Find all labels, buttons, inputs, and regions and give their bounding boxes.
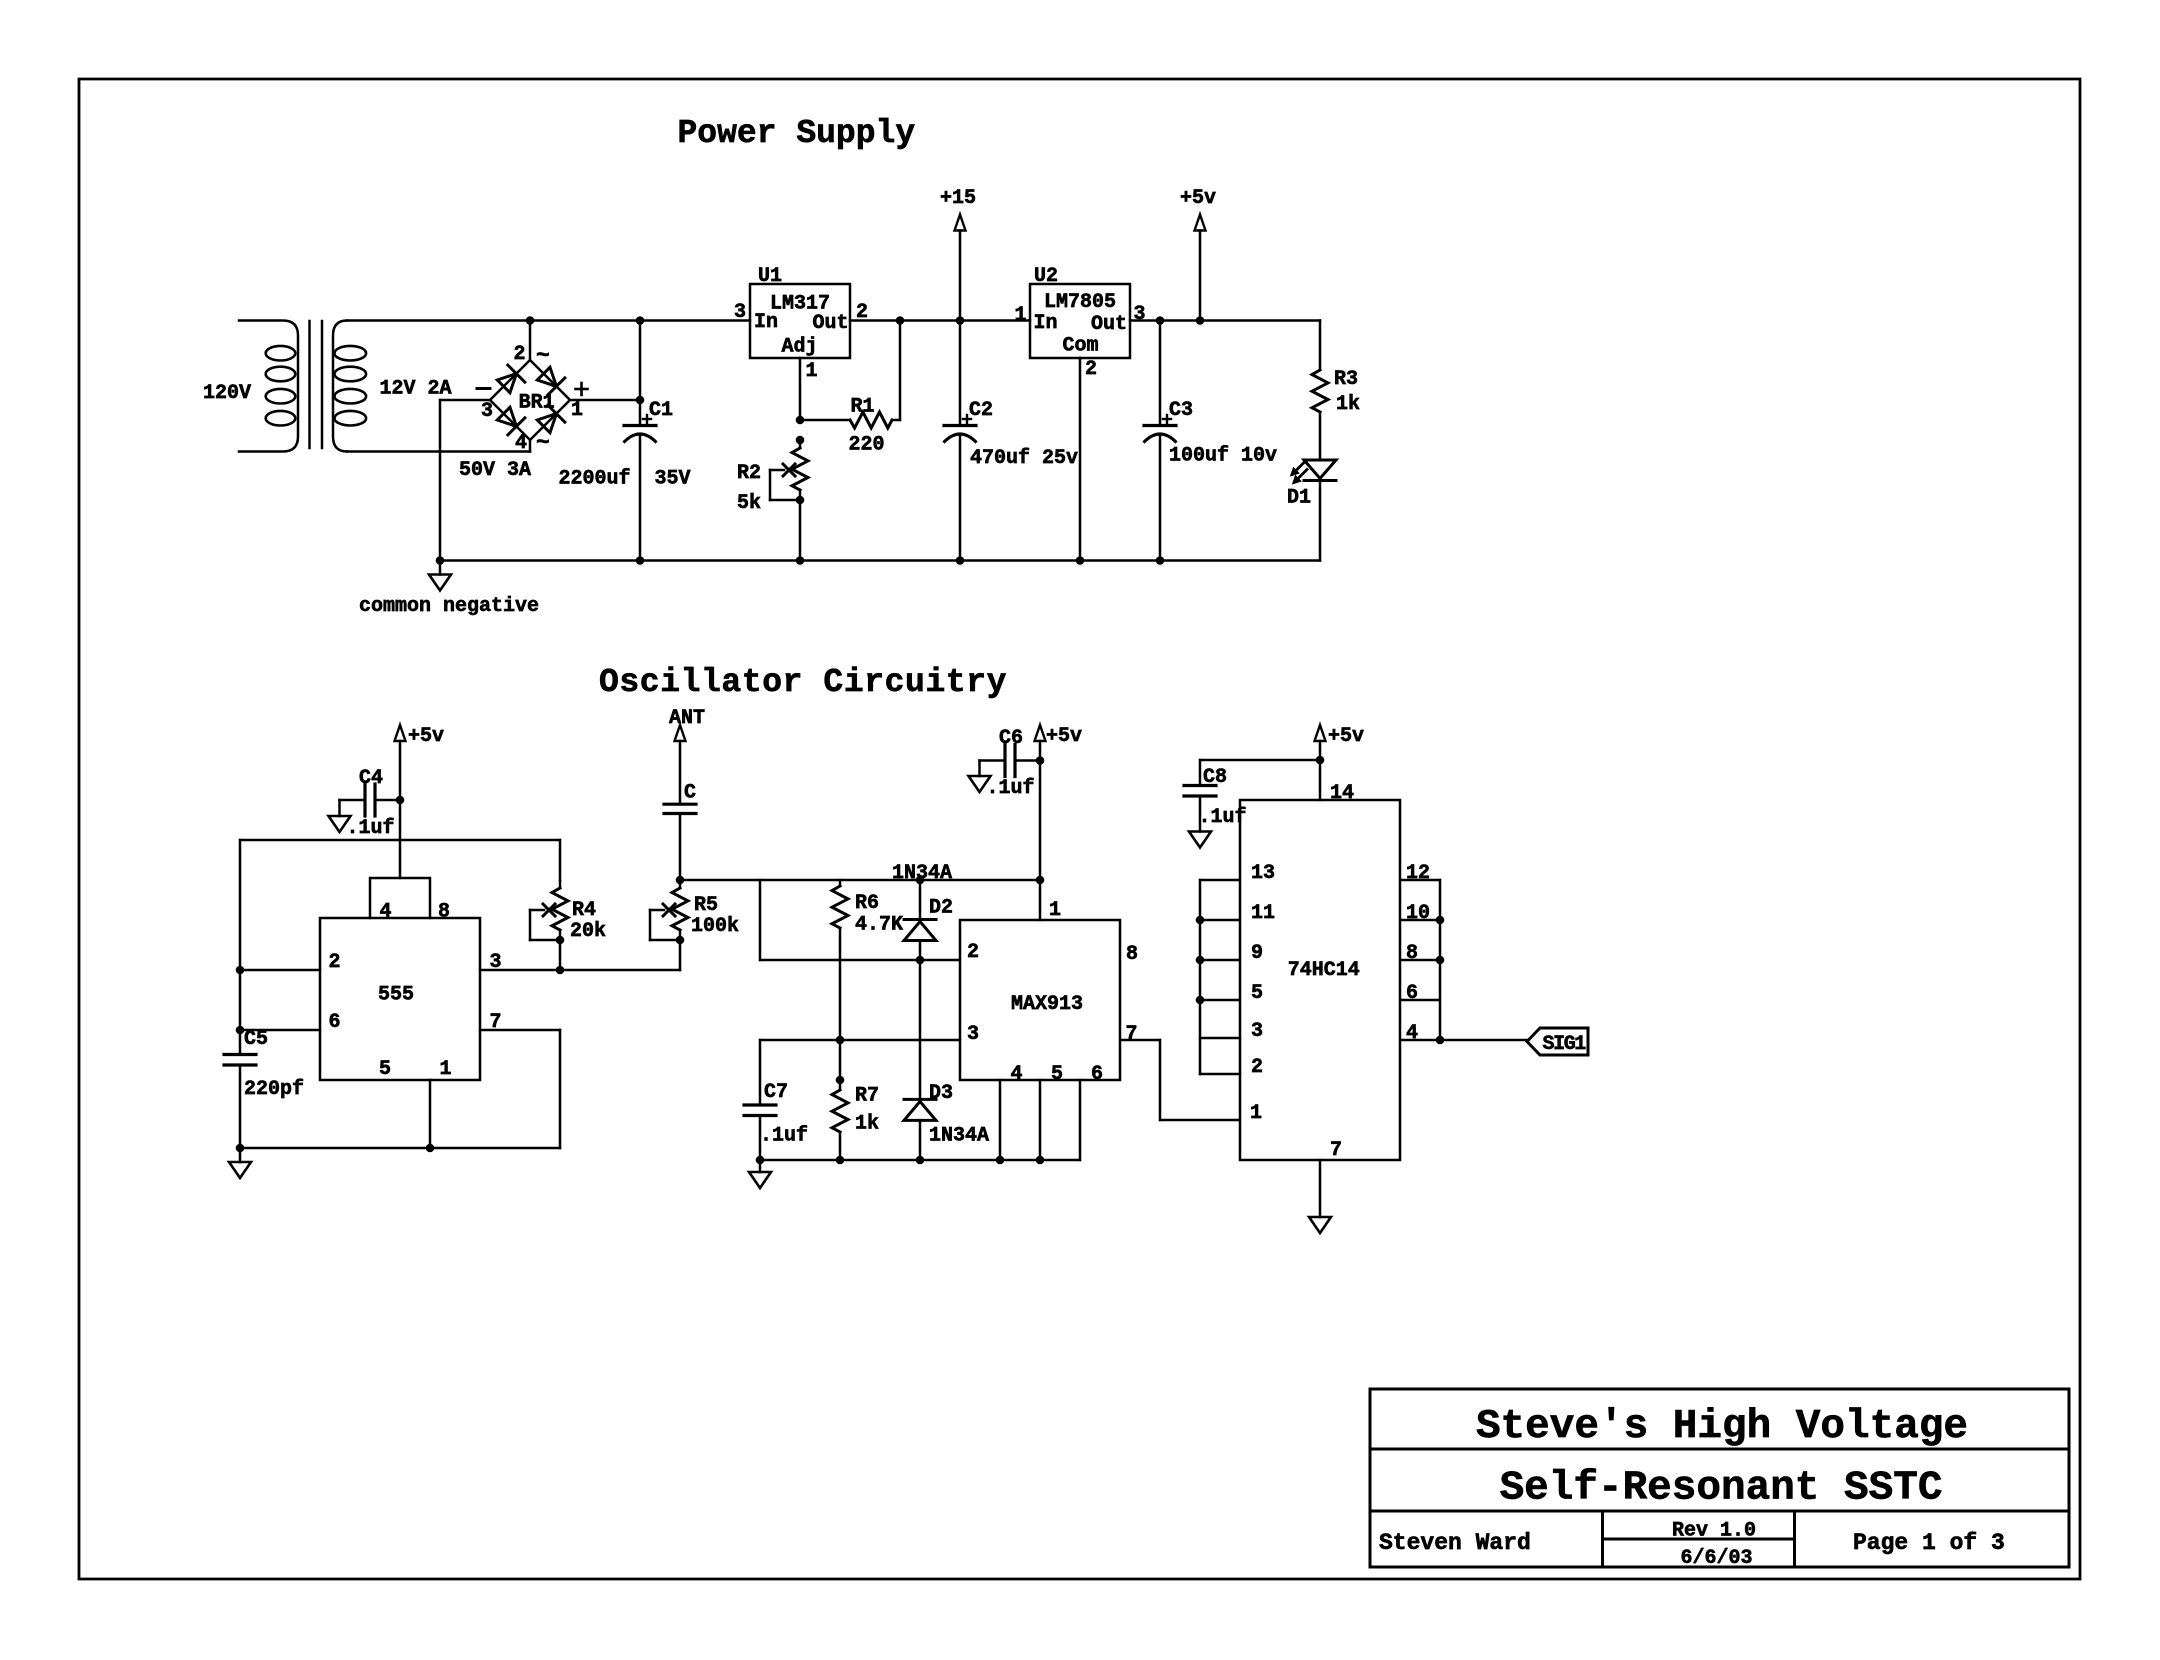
svg-text:Oscillator Circuitry: Oscillator Circuitry (599, 664, 1007, 701)
svg-text:6: 6 (1091, 1063, 1103, 1086)
svg-text:10: 10 (1406, 902, 1430, 925)
svg-text:C5: C5 (244, 1028, 268, 1051)
svg-text:555: 555 (378, 984, 414, 1007)
svg-text:Self-Resonant SSTC: Self-Resonant SSTC (1500, 1466, 1943, 1512)
svg-text:100uf 10v: 100uf 10v (1169, 445, 1277, 468)
svg-text:R2: R2 (737, 462, 761, 485)
svg-text:C2: C2 (969, 399, 993, 422)
svg-text:220: 220 (849, 434, 885, 457)
svg-text:4: 4 (380, 901, 392, 924)
svg-text:8: 8 (1126, 943, 1138, 966)
svg-text:1k: 1k (855, 1113, 879, 1136)
svg-text:5: 5 (1051, 1063, 1063, 1086)
svg-text:3: 3 (490, 951, 502, 974)
svg-text:3: 3 (1251, 1020, 1263, 1043)
svg-text:6: 6 (329, 1011, 341, 1034)
svg-text:R4: R4 (572, 899, 596, 922)
svg-text:+5v: +5v (1180, 187, 1216, 210)
svg-text:D3: D3 (929, 1082, 953, 1105)
svg-text:50V 3A: 50V 3A (459, 459, 531, 482)
svg-text:6/6/03: 6/6/03 (1680, 1547, 1752, 1570)
svg-text:+15: +15 (940, 187, 976, 210)
svg-text:Com: Com (1062, 335, 1098, 358)
svg-text:1: 1 (440, 1058, 452, 1081)
svg-text:2: 2 (856, 301, 868, 324)
svg-text:.1uf: .1uf (347, 817, 395, 840)
svg-text:5: 5 (1251, 982, 1263, 1005)
svg-text:R5: R5 (694, 894, 718, 917)
svg-text:11: 11 (1251, 902, 1275, 925)
svg-text:2200uf: 2200uf (559, 468, 631, 491)
svg-text:~: ~ (536, 343, 550, 369)
svg-text:8: 8 (438, 901, 450, 924)
svg-text:35V: 35V (655, 468, 691, 491)
svg-text:1N34A: 1N34A (929, 1125, 989, 1148)
svg-text:1k: 1k (1336, 393, 1360, 416)
svg-text:C7: C7 (764, 1081, 788, 1104)
svg-text:2: 2 (329, 951, 341, 974)
svg-text:470uf 25v: 470uf 25v (970, 447, 1078, 470)
svg-text:.1uf: .1uf (1199, 806, 1247, 829)
svg-text:2: 2 (1251, 1056, 1263, 1079)
svg-text:C8: C8 (1203, 766, 1227, 789)
svg-text:4: 4 (515, 432, 527, 455)
svg-text:In: In (754, 311, 778, 334)
svg-text:3: 3 (967, 1023, 979, 1046)
svg-text:R7: R7 (855, 1085, 879, 1108)
svg-text:4: 4 (1011, 1063, 1023, 1086)
svg-text:13: 13 (1251, 862, 1275, 885)
svg-text:8: 8 (1406, 942, 1418, 965)
svg-text:In: In (1034, 312, 1058, 335)
svg-text:+5v: +5v (1328, 725, 1364, 748)
svg-text:2: 2 (967, 941, 979, 964)
svg-text:R1: R1 (851, 396, 875, 419)
svg-text:C1: C1 (649, 399, 673, 422)
svg-text:100k: 100k (691, 915, 739, 938)
svg-text:LM7805: LM7805 (1044, 291, 1116, 314)
svg-text:U2: U2 (1034, 265, 1058, 288)
svg-text:74HC14: 74HC14 (1288, 959, 1360, 982)
svg-text:20k: 20k (570, 920, 606, 943)
svg-text:7: 7 (1330, 1139, 1342, 1162)
svg-text:2: 2 (514, 343, 526, 366)
svg-text:Out: Out (1091, 313, 1127, 336)
svg-text:U1: U1 (758, 265, 782, 288)
svg-text:+5v: +5v (1046, 725, 1082, 748)
svg-text:Power Supply: Power Supply (678, 115, 916, 152)
svg-text:14: 14 (1330, 782, 1354, 805)
svg-text:R3: R3 (1334, 368, 1358, 391)
svg-text:7: 7 (490, 1011, 502, 1034)
svg-text:9: 9 (1251, 942, 1263, 965)
svg-text:12V 2A: 12V 2A (380, 378, 452, 401)
svg-text:12: 12 (1406, 862, 1430, 885)
svg-text:1: 1 (1250, 1102, 1262, 1125)
svg-text:BR1: BR1 (519, 392, 555, 415)
svg-text:5k: 5k (737, 492, 761, 515)
svg-text:4: 4 (1406, 1022, 1418, 1045)
svg-text:D2: D2 (929, 897, 953, 920)
svg-text:.1uf: .1uf (987, 777, 1035, 800)
svg-text:7: 7 (1126, 1023, 1138, 1046)
svg-text:6: 6 (1406, 982, 1418, 1005)
svg-text:Rev 1.0: Rev 1.0 (1672, 1520, 1756, 1543)
svg-text:ANT: ANT (669, 707, 705, 730)
svg-text:3: 3 (1134, 303, 1146, 326)
svg-text:1: 1 (571, 399, 583, 422)
svg-text:220pf: 220pf (244, 1078, 304, 1101)
svg-text:Page 1 of 3: Page 1 of 3 (1853, 1530, 2005, 1556)
svg-text:120V: 120V (203, 382, 251, 405)
svg-text:R6: R6 (855, 892, 879, 915)
svg-text:MAX913: MAX913 (1011, 993, 1083, 1016)
svg-text:4.7K: 4.7K (855, 914, 903, 937)
svg-text:3: 3 (481, 400, 493, 423)
svg-text:5: 5 (379, 1058, 391, 1081)
svg-text:~: ~ (536, 430, 550, 456)
svg-text:C: C (684, 782, 696, 805)
svg-text:C6: C6 (999, 727, 1023, 750)
svg-text:.1uf: .1uf (760, 1125, 808, 1148)
svg-text:common negative: common negative (359, 595, 539, 618)
svg-text:Out: Out (812, 312, 848, 335)
svg-text:1N34A: 1N34A (892, 862, 952, 885)
svg-text:Adj: Adj (781, 336, 817, 359)
svg-text:+5v: +5v (408, 725, 444, 748)
svg-text:C4: C4 (359, 767, 383, 790)
svg-text:D1: D1 (1287, 487, 1311, 510)
svg-text:1: 1 (806, 360, 818, 383)
svg-text:3: 3 (734, 301, 746, 324)
svg-text:1: 1 (1014, 304, 1026, 327)
svg-text:1: 1 (1049, 899, 1061, 922)
svg-text:Steven Ward: Steven Ward (1379, 1530, 1531, 1556)
svg-text:SIG1: SIG1 (1543, 1033, 1587, 1056)
svg-text:C3: C3 (1169, 399, 1193, 422)
svg-text:Steve's High Voltage: Steve's High Voltage (1476, 1404, 1968, 1450)
svg-text:2: 2 (1085, 358, 1097, 381)
